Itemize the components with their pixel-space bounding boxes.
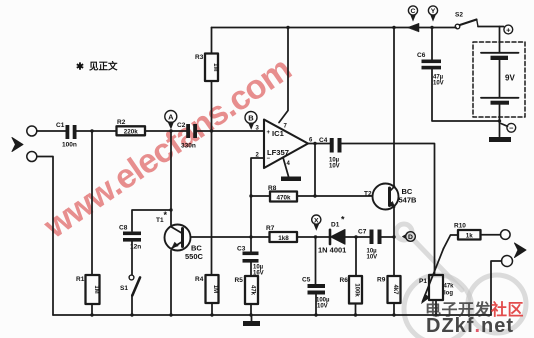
svg-text:4k7: 4k7	[392, 284, 398, 295]
switch S2	[455, 12, 478, 29]
svg-text:1M: 1M	[212, 285, 218, 293]
svg-text:Y: Y	[431, 8, 436, 15]
svg-text:10V: 10V	[317, 304, 328, 310]
svg-text:LF357: LF357	[267, 148, 289, 157]
svg-text:7: 7	[284, 124, 288, 130]
node A junction	[169, 129, 172, 132]
svg-text:C6: C6	[417, 52, 426, 59]
battery BT1 9V	[473, 27, 525, 137]
resistor R10	[454, 223, 481, 240]
wire T1 emitter to rail	[170, 251, 172, 316]
wire R3 bottom to signal node	[211, 81, 213, 131]
wire C3 to R5	[250, 263, 252, 276]
node C marker	[408, 6, 417, 22]
wire C7 to emitter node	[382, 236, 395, 238]
top rail wire	[212, 27, 457, 29]
wire input top to C1	[37, 130, 66, 132]
svg-text:−: −	[267, 156, 271, 162]
wire D1 to C7	[345, 236, 370, 238]
capacitor C1	[56, 122, 77, 149]
wire C8 branch	[132, 210, 171, 231]
mic input jack top	[27, 126, 37, 136]
wire down to R1	[91, 131, 93, 275]
svg-text:A: A	[168, 112, 174, 121]
ground under op-amp	[281, 177, 301, 182]
svg-text:C5: C5	[302, 277, 311, 284]
node X junction	[314, 235, 317, 238]
node X marker	[312, 215, 321, 231]
wire R2 to C2	[145, 130, 186, 132]
svg-text:R10: R10	[454, 223, 466, 230]
svg-text:C2: C2	[177, 122, 186, 129]
wire pin4 to ground	[283, 157, 289, 176]
svg-text:+: +	[267, 130, 271, 136]
svg-text:R3: R3	[195, 54, 204, 61]
svg-text:100k: 100k	[354, 283, 360, 297]
gray logo watermark circle	[396, 224, 526, 338]
minus terminal	[501, 123, 516, 132]
wire op-amp output	[308, 143, 330, 145]
wire R3 top	[211, 28, 213, 54]
node Y marker	[428, 6, 437, 22]
output jack bottom	[502, 256, 513, 267]
wire C1 to R2	[77, 130, 117, 132]
wire C2 to op-amp pin3	[197, 130, 264, 132]
svg-text:330n: 330n	[181, 143, 196, 150]
svg-text:1M: 1M	[93, 285, 99, 293]
watermark elecfans diagonal	[38, 51, 298, 245]
svg-text:10V: 10V	[367, 255, 378, 261]
svg-text:T2: T2	[364, 191, 372, 198]
wire input bottom to ground rail	[37, 157, 53, 316]
capacitor C3	[237, 246, 264, 277]
node junction at R3 column	[210, 129, 213, 132]
mic input jack bottom	[27, 152, 37, 162]
wire R6 to rail	[355, 304, 357, 316]
wire to C6	[431, 28, 433, 60]
ground below battery	[489, 137, 511, 142]
svg-text:9V: 9V	[505, 74, 515, 83]
wire output bottom to rail	[491, 261, 502, 315]
wire R9 to rail	[393, 303, 395, 315]
svg-text:D: D	[408, 234, 413, 241]
svg-text:C3: C3	[237, 246, 246, 253]
wire node A down to T1 collector	[170, 131, 172, 225]
resistor R7	[266, 225, 297, 242]
svg-text:R6: R6	[340, 277, 349, 284]
wire P1 bottom to rail	[435, 300, 437, 315]
feedback vertical from output	[314, 144, 316, 197]
wire R1 to rail	[91, 304, 93, 315]
resistor R3	[195, 54, 218, 82]
wire R7 to D1	[297, 236, 330, 238]
svg-text:R4: R4	[195, 276, 204, 283]
junction C8 branch	[169, 208, 172, 211]
node A marker	[165, 111, 177, 130]
svg-text:−: −	[509, 124, 514, 133]
svg-text:X: X	[314, 217, 319, 224]
capacitor C6	[417, 52, 444, 87]
node junction after C1	[90, 129, 93, 132]
transistor T1	[156, 210, 204, 261]
svg-text:R1: R1	[76, 276, 85, 283]
svg-text:220k: 220k	[124, 129, 139, 136]
svg-text:547B: 547B	[399, 196, 418, 205]
svg-text:1k8: 1k8	[278, 235, 289, 242]
capacitor C2	[177, 122, 197, 150]
wire T2 collector to top rail	[393, 28, 395, 187]
output arrow	[515, 243, 527, 258]
bottom-right watermark: site name	[425, 296, 524, 320]
resistor R5	[235, 276, 259, 304]
svg-text:C4: C4	[319, 137, 328, 144]
junction battery minus	[498, 119, 501, 122]
svg-text:✱: ✱	[76, 62, 85, 73]
resistor R4	[195, 275, 219, 303]
svg-text:47k: 47k	[444, 284, 455, 290]
svg-text:C1: C1	[56, 122, 65, 129]
rail junction dots	[90, 313, 93, 316]
potentiometer P1	[419, 249, 454, 304]
transistor T2	[364, 184, 417, 210]
resistor R2	[117, 119, 146, 136]
output jack top	[501, 230, 511, 240]
svg-text:P1: P1	[419, 278, 427, 285]
svg-text:S2: S2	[455, 12, 463, 19]
svg-text:R7: R7	[266, 225, 275, 232]
resistor R6	[340, 276, 363, 304]
arrowhead on top rail	[408, 23, 420, 32]
svg-text:550C: 550C	[185, 252, 204, 261]
wire C4 to P1	[342, 144, 435, 276]
svg-text:IC1: IC1	[272, 129, 285, 138]
plus terminal	[504, 25, 513, 34]
wire T1 base to R7 node	[191, 236, 270, 238]
bottom-right watermark: DZkf.net logo	[426, 315, 514, 338]
svg-text:470k: 470k	[276, 195, 291, 202]
svg-text:R5: R5	[235, 277, 244, 284]
wire R8 row	[251, 195, 270, 197]
wire R10 to output jack	[481, 234, 501, 236]
resistor R8	[268, 185, 297, 202]
svg-text:*: *	[341, 215, 345, 225]
svg-text:100n: 100n	[62, 142, 77, 149]
svg-text:C7: C7	[358, 229, 367, 236]
wire R6 branch	[355, 237, 357, 276]
svg-text:1k: 1k	[466, 232, 474, 239]
svg-text:+: +	[506, 25, 511, 34]
wire C5 to rail	[315, 295, 317, 316]
input arrow	[12, 138, 23, 152]
svg-text:C: C	[411, 8, 416, 15]
resistor R1	[76, 275, 100, 304]
svg-text:1M: 1M	[212, 63, 218, 71]
svg-text:4: 4	[287, 161, 291, 167]
op-amp U1 triangle	[256, 120, 314, 169]
wire T2 emitter down	[393, 207, 395, 276]
wire pin2 feedback left	[251, 158, 264, 252]
capacitor C4	[319, 137, 342, 170]
wire S2 to battery plus	[478, 26, 504, 28]
node D marker	[402, 232, 416, 242]
svg-text:B: B	[248, 113, 254, 122]
svg-text:R2: R2	[117, 119, 126, 126]
svg-text:D1: D1	[331, 222, 340, 229]
see text note	[76, 61, 118, 73]
wire R5 to rail	[250, 304, 252, 315]
junction Y / C6	[430, 26, 433, 29]
svg-text:R8: R8	[268, 185, 277, 192]
capacitor C5	[302, 277, 330, 310]
wire R4 to rail	[211, 303, 213, 315]
wire C6 to battery minus	[432, 69, 500, 121]
node B marker	[245, 112, 257, 130]
wire X down to C5	[315, 237, 317, 284]
svg-text:1N 4001: 1N 4001	[318, 246, 346, 255]
svg-text:47k: 47k	[250, 285, 256, 296]
wire node column down to R4	[211, 131, 213, 275]
wire C8 to S1	[131, 242, 133, 275]
svg-text:R9: R9	[377, 277, 386, 284]
wire wiper to R10	[444, 235, 459, 249]
switch S1	[120, 275, 140, 315]
capacitor C8	[119, 225, 141, 251]
svg-text:*: *	[164, 210, 168, 220]
svg-text:10V: 10V	[433, 81, 444, 87]
svg-text:10V: 10V	[329, 164, 340, 170]
svg-text:6: 6	[309, 138, 313, 144]
ground below rail	[251, 315, 253, 321]
diode D1	[318, 215, 346, 255]
svg-text:见正文: 见正文	[89, 61, 118, 73]
svg-text:C8: C8	[119, 225, 128, 232]
resistor R9	[377, 276, 401, 303]
bottom ground rail	[53, 314, 491, 316]
wire pin7 to top rail	[279, 28, 288, 123]
capacitor C7	[358, 229, 382, 261]
svg-text:S1: S1	[120, 285, 128, 292]
